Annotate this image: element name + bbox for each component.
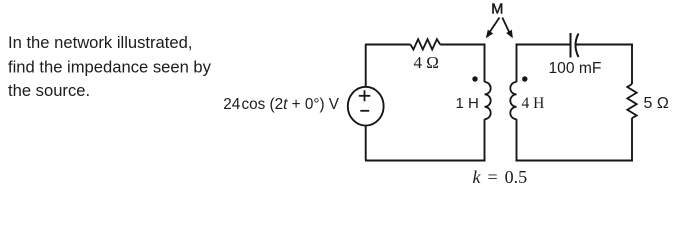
wire: right loop top rail left segment [516,44,571,46]
svg-text:5 Ω: 5 Ω [644,95,669,112]
inductor L1 vertical lead bottom [484,119,486,161]
wire: right vertical top [631,44,633,85]
voltage source minus sign [360,110,369,112]
inductor L2 vertical lead bottom [516,119,518,161]
wire: right loop top rail right segment [576,44,634,46]
svg-text:the source.: the source. [8,81,90,100]
wire: top rail left segment [365,44,411,46]
wire: left vertical bottom (source to bottom rail) [365,125,367,160]
problem statement text [8,33,212,100]
inductor L2 vertical lead top [516,44,518,83]
svg-text:find the impedance seen by: find the impedance seen by [8,58,212,77]
svg-text:100 mF: 100 mF [549,60,602,77]
capacitor 100 mF right curved plate [576,34,579,58]
svg-text:In the network illustrated,: In the network illustrated, [8,33,192,52]
voltage source V1 circle [348,87,384,126]
svg-text:4 Ω: 4 Ω [414,53,439,72]
resistor 5 ohm zigzag [627,84,636,118]
wire: left vertical top (source to top rail) [365,45,367,88]
capacitor 100 mF left plate [570,33,572,58]
inductor L1 coil 1 H (arcs bulge right) [485,82,491,119]
inductor L2 coil 4 H (arcs bulge left) [510,82,516,119]
svg-text:1 H: 1 H [456,95,479,112]
wire: bottom rail left loop [365,160,486,162]
svg-text:24 cos (2t + 0°) V: 24 cos (2t + 0°) V [223,96,340,113]
voltage source plus sign [359,90,371,101]
arrow from M to L2 [502,18,513,39]
dot mark L2 [522,76,527,81]
svg-text:M: M [491,2,503,18]
svg-text:k = 0.5: k = 0.5 [473,167,528,187]
wire: top rail right segment to coil L1 [440,44,485,46]
arrow from M to L1 [486,18,500,39]
dot mark L1 [472,76,477,81]
inductor L1 vertical lead top [484,44,486,83]
wire: bottom rail right loop [516,160,634,162]
wire: right vertical bottom [631,118,633,162]
resistor 4ohm zigzag [411,39,441,49]
svg-text:4 H: 4 H [522,95,545,112]
